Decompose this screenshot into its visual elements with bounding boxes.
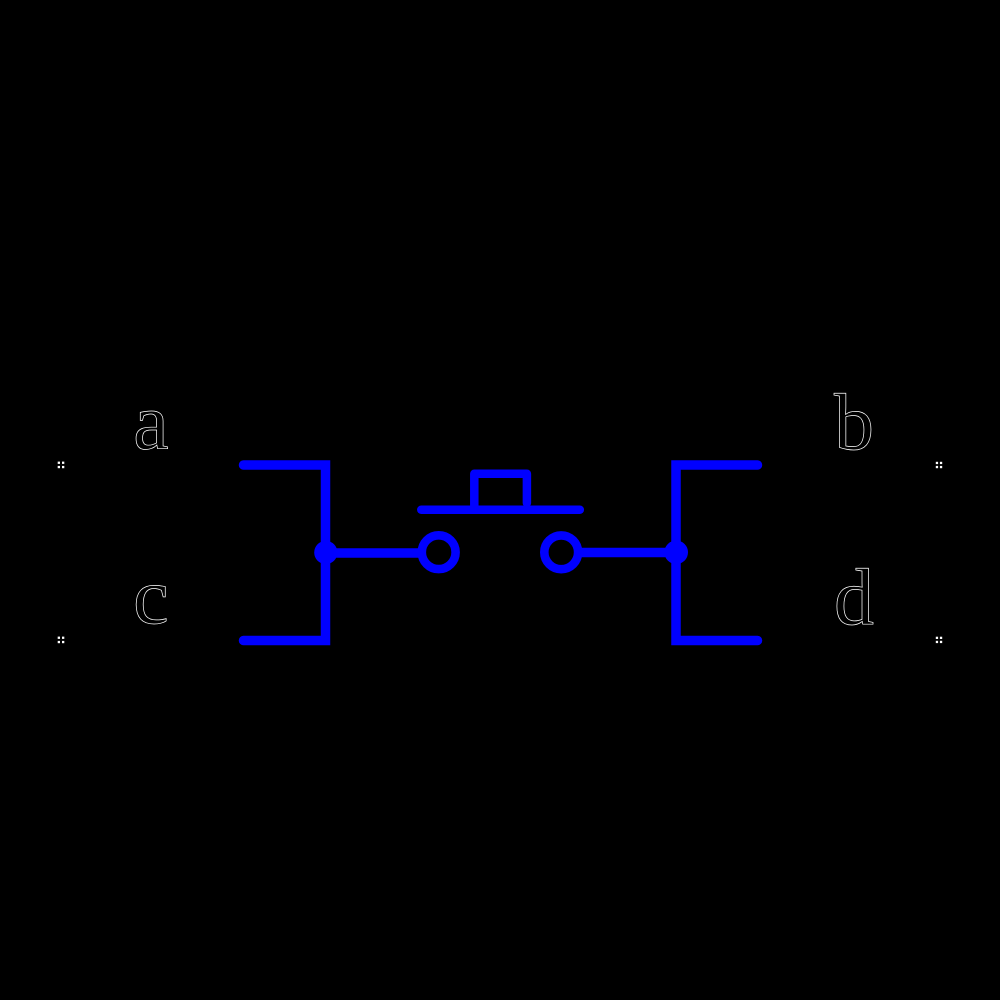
wire switch contact to node-right xyxy=(581,548,676,558)
svg-text:a: a xyxy=(133,379,169,467)
junction node right xyxy=(664,541,688,565)
pin marker d (right bottom) xyxy=(936,637,942,643)
svg-text:b: b xyxy=(834,379,874,467)
pushbutton contact circle right xyxy=(544,535,578,569)
pushbutton actuator cap xyxy=(474,474,527,508)
wire node-left to switch contact xyxy=(326,548,420,558)
junction node left xyxy=(314,541,337,564)
pin marker b (right top) xyxy=(936,462,942,468)
svg-text:d: d xyxy=(834,554,874,642)
wire left bracket (pins a,c to node) xyxy=(244,465,326,641)
pushbutton contact circle left xyxy=(422,535,456,569)
pin marker a (left top) xyxy=(58,462,65,469)
pin marker c (left bottom) xyxy=(58,637,65,644)
wire right bracket (pins b,d to node) xyxy=(676,465,758,641)
svg-text:c: c xyxy=(133,553,169,641)
pushbutton movable bar xyxy=(421,506,580,515)
